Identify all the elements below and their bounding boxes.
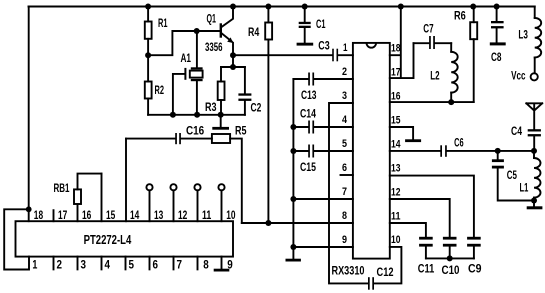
capacitor C11 bbox=[418, 237, 435, 276]
wire capacitor bottom rail bbox=[426, 257, 474, 259]
svg-text:C14: C14 bbox=[300, 107, 316, 121]
wire RX3310 pin8 rail bbox=[242, 222, 353, 224]
node dot R3 bottom on bus bbox=[218, 112, 224, 118]
svg-text:C12: C12 bbox=[377, 265, 394, 279]
resistor R3 bbox=[205, 67, 225, 115]
wire pin 14 row bbox=[390, 150, 441, 152]
svg-text:5: 5 bbox=[342, 138, 347, 150]
svg-text:4: 4 bbox=[105, 257, 111, 271]
node dot R4 bottom on pin8 wire bbox=[265, 220, 271, 226]
node dot pin18 riser on bus bbox=[398, 4, 404, 10]
pin 9 tick with ground bar bbox=[221, 257, 223, 269]
capacitor C14 and pin 4 wire bbox=[293, 107, 353, 134]
resistor R5 bbox=[212, 124, 247, 224]
svg-text:7: 7 bbox=[177, 257, 183, 271]
svg-text:2: 2 bbox=[57, 257, 63, 271]
svg-text:15: 15 bbox=[391, 115, 401, 127]
PT2272 bottom pin ticks bbox=[53, 257, 55, 270]
svg-text:3356: 3356 bbox=[205, 40, 223, 54]
svg-text:10: 10 bbox=[226, 208, 236, 222]
capacitor C13 and pin 2 wire bbox=[293, 73, 353, 103]
node dot L1 bottom / C5 bottom bbox=[531, 198, 537, 204]
svg-text:12: 12 bbox=[178, 208, 188, 222]
wire left decoupling rail x=293 with ground bbox=[286, 79, 301, 262]
wire C16 left leg down to PT2272 pin 14 bbox=[125, 139, 127, 222]
wire pin 9 bbox=[293, 246, 353, 248]
svg-text:A1: A1 bbox=[181, 51, 192, 65]
capacitor C10 bbox=[442, 237, 460, 277]
svg-text:R5: R5 bbox=[235, 124, 247, 138]
svg-text:8: 8 bbox=[342, 210, 347, 222]
svg-text:3: 3 bbox=[342, 90, 347, 102]
capacitor C6 bbox=[440, 136, 534, 157]
svg-text:R1: R1 bbox=[158, 16, 168, 30]
pin 6 stub RX3310 bbox=[341, 174, 353, 176]
svg-text:1: 1 bbox=[32, 257, 37, 271]
wire pin 17 to C7 riser bbox=[390, 43, 414, 78]
wire pin 3 down to C12 bbox=[329, 103, 368, 283]
wire pin 13 to C9 bbox=[390, 176, 474, 237]
PT2272 top pin ticks bbox=[53, 210, 55, 221]
terminal circles above pins 13-10 bbox=[146, 184, 152, 190]
svg-text:C5: C5 bbox=[507, 168, 517, 182]
svg-text:C2: C2 bbox=[251, 100, 262, 114]
wire loop pin18 to pin1 bbox=[4, 209, 29, 269]
svg-text:6: 6 bbox=[153, 257, 159, 271]
svg-text:13: 13 bbox=[391, 163, 401, 175]
wire pin 12 to C10 bbox=[390, 199, 450, 237]
node dot C6/C5 junction bbox=[495, 148, 501, 154]
capacitor C8 with ground bbox=[490, 7, 506, 65]
svg-text:17: 17 bbox=[58, 208, 68, 222]
node dot A1 left leg on bus bbox=[170, 112, 176, 118]
RX3310 right pin numbers bbox=[391, 43, 401, 246]
node dot base/A1 junction bbox=[194, 28, 200, 34]
node dot R1/R2 junction bbox=[145, 52, 151, 58]
node dot emitter / R3-C2 top wire bbox=[230, 64, 236, 70]
capacitor C1 with ground bbox=[297, 7, 326, 46]
svg-text:Vcc: Vcc bbox=[511, 69, 526, 83]
node dot pin7 on rail bbox=[290, 196, 296, 202]
wire left bus from top bus down to PT2272 pin 18 column bbox=[28, 7, 30, 222]
ground at pin 15 bbox=[390, 127, 421, 142]
svg-text:R6: R6 bbox=[454, 9, 466, 23]
svg-text:PT2272-L4: PT2272-L4 bbox=[84, 232, 132, 247]
wire pin 7 bbox=[293, 198, 353, 200]
svg-text:16: 16 bbox=[391, 91, 401, 103]
svg-text:11: 11 bbox=[391, 211, 401, 223]
svg-text:C8: C8 bbox=[491, 50, 502, 64]
svg-text:RX3310: RX3310 bbox=[332, 264, 365, 278]
node dot C8 top on bus bbox=[494, 4, 500, 10]
svg-text:C7: C7 bbox=[423, 22, 434, 36]
svg-text:16: 16 bbox=[82, 208, 92, 222]
PT2272 bottom pin numbers bbox=[32, 257, 233, 271]
inductor L3 with Vcc terminal bbox=[511, 7, 541, 83]
svg-text:C11: C11 bbox=[418, 262, 435, 276]
node dot Q1 collector on bus bbox=[230, 4, 236, 10]
svg-text:8: 8 bbox=[203, 257, 209, 271]
capacitor C2 bbox=[238, 67, 261, 115]
PT2272 top pin numbers bbox=[34, 208, 236, 222]
svg-text:3: 3 bbox=[81, 257, 87, 271]
capacitor C7 bbox=[414, 22, 452, 49]
svg-text:10: 10 bbox=[391, 234, 401, 246]
resistor R2 bbox=[145, 55, 164, 115]
svg-text:1: 1 bbox=[343, 42, 348, 54]
node dot C15 left bbox=[290, 148, 296, 154]
wire pin 11 to C11 bbox=[390, 223, 426, 237]
inductor L1 with ground bbox=[520, 151, 543, 209]
RX3310 left pin numbers bbox=[342, 42, 348, 246]
svg-text:R2: R2 bbox=[155, 83, 165, 97]
svg-text:17: 17 bbox=[391, 67, 401, 79]
node dot C4 bottom / L1 top bbox=[531, 148, 537, 154]
node dot R6 top on bus bbox=[470, 4, 476, 10]
capacitor C16 bbox=[126, 124, 212, 145]
capacitor C3 bbox=[318, 38, 353, 61]
wire top Vcc bus bbox=[29, 6, 535, 8]
svg-text:12: 12 bbox=[391, 187, 401, 199]
resistor R1 bbox=[145, 7, 168, 56]
capacitor C9 bbox=[467, 237, 482, 276]
svg-text:L3: L3 bbox=[518, 27, 528, 41]
svg-text:2: 2 bbox=[342, 66, 347, 78]
node dot pin 18 column / left bus / loop bbox=[26, 206, 32, 212]
svg-text:C10: C10 bbox=[442, 263, 460, 277]
ground below R3 bbox=[212, 115, 229, 130]
svg-text:18: 18 bbox=[391, 43, 401, 55]
wire R3/C2 top rail bbox=[221, 66, 245, 68]
inductor L2 bbox=[430, 43, 457, 102]
svg-text:5: 5 bbox=[129, 257, 135, 271]
svg-text:14: 14 bbox=[130, 208, 140, 222]
node dot C1 top on bus bbox=[302, 4, 308, 10]
resistor R4 bbox=[248, 7, 272, 224]
svg-text:RB1: RB1 bbox=[54, 181, 70, 195]
svg-text:C13: C13 bbox=[301, 88, 317, 102]
svg-text:13: 13 bbox=[154, 208, 164, 222]
svg-text:9: 9 bbox=[342, 234, 347, 246]
wire pin 18 to top bus bbox=[390, 7, 401, 79]
svg-text:R4: R4 bbox=[248, 25, 260, 39]
svg-text:7: 7 bbox=[342, 186, 347, 198]
resistor R6 bbox=[454, 7, 477, 103]
node dot C14 left bbox=[290, 124, 296, 130]
svg-text:6: 6 bbox=[342, 162, 347, 174]
antenna bbox=[526, 103, 542, 129]
capacitor C4 bbox=[511, 124, 541, 151]
svg-text:15: 15 bbox=[106, 208, 116, 222]
IC U2 RX3310 body bbox=[332, 43, 390, 278]
resistor RB1 bbox=[54, 174, 102, 204]
svg-text:4: 4 bbox=[342, 114, 348, 126]
wire from R1/R2 node up to Q1 base bbox=[148, 31, 220, 55]
svg-text:C1: C1 bbox=[316, 17, 326, 31]
svg-text:C9: C9 bbox=[468, 262, 482, 276]
node dot pin9 on rail bbox=[290, 244, 296, 250]
svg-text:11: 11 bbox=[202, 208, 212, 222]
svg-text:14: 14 bbox=[391, 139, 401, 151]
node dot C10 bottom on rail bbox=[447, 255, 453, 261]
capacitor C12 bbox=[368, 247, 401, 290]
crystal A1 bbox=[173, 31, 203, 115]
transistor Q1 bbox=[205, 7, 233, 68]
wire emitter to C3 / RX3310 pin 1 bbox=[233, 54, 332, 56]
svg-text:R3: R3 bbox=[205, 100, 217, 114]
svg-text:L2: L2 bbox=[430, 68, 440, 82]
svg-text:C4: C4 bbox=[511, 124, 522, 138]
svg-text:L1: L1 bbox=[520, 181, 529, 195]
svg-text:C3: C3 bbox=[318, 38, 330, 52]
wire pin 16 bbox=[390, 101, 474, 103]
svg-text:C16: C16 bbox=[186, 124, 204, 138]
node dot L2 bottom on pin16 wire bbox=[448, 99, 454, 105]
svg-text:C6: C6 bbox=[454, 136, 464, 150]
capacitor C15 and pin 5 wire bbox=[293, 145, 353, 175]
wire bottom bus of oscillator section bbox=[148, 114, 245, 116]
svg-text:9: 9 bbox=[227, 257, 233, 271]
capacitor C5 bbox=[492, 151, 534, 201]
svg-text:Q1: Q1 bbox=[207, 11, 217, 25]
svg-text:18: 18 bbox=[34, 208, 44, 222]
svg-text:C15: C15 bbox=[300, 160, 316, 174]
node dot R4 top on bus bbox=[265, 4, 271, 10]
node dot emitter / pin1 wire bbox=[230, 52, 236, 58]
node dot R1 top on bus bbox=[145, 4, 151, 10]
node dot A1 bottom on bus bbox=[194, 112, 200, 118]
IC U1 PT2272-L4 body bbox=[16, 221, 234, 256]
